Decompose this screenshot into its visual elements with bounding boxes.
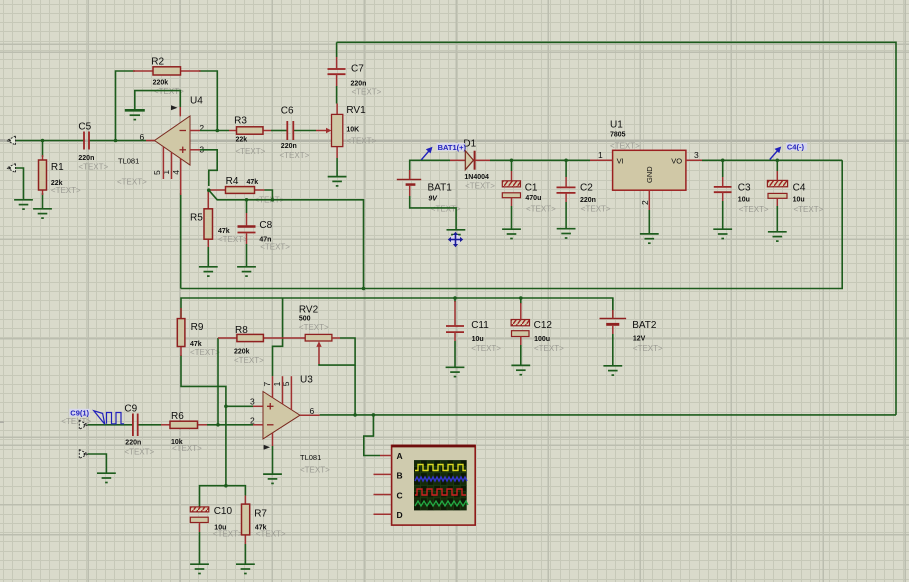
svg-text:<TEXT>: <TEXT> [51,186,81,195]
resistor R9 [177,308,185,356]
ground below terminal T2 [14,200,33,209]
svg-text:BAT1: BAT1 [428,183,453,194]
svg-text:C7: C7 [351,64,364,75]
terminal input T4 [79,450,88,459]
svg-text:R7: R7 [254,509,267,520]
svg-text:220k: 220k [234,349,250,356]
wire U4 pin2 to R3 [200,130,229,132]
resistor R4 [209,187,265,194]
svg-text:220n: 220n [125,440,141,447]
capacitor C7 [328,57,346,86]
svg-text:D: D [397,510,403,520]
oscilloscope [374,445,476,525]
svg-text:C11: C11 [471,320,489,331]
svg-text:TL081: TL081 [300,453,321,462]
wire R3 to C6 [271,130,287,132]
svg-text:<TEXT>: <TEXT> [218,235,248,244]
svg-text:10u: 10u [738,197,750,204]
scope trace C red [415,489,466,495]
svg-text:R3: R3 [234,116,247,127]
wire BAT2 stubs [612,298,614,310]
svg-text:<TEXT>: <TEXT> [299,323,329,332]
origin marker blue [448,232,463,247]
scope trace A yellow [415,465,466,471]
wire U1 pin3 rail [702,159,842,161]
svg-text:<TEXT>: <TEXT> [300,466,330,475]
svg-text:<TEXT>: <TEXT> [526,205,556,214]
terminal input T3 [79,420,88,429]
svg-text:C9: C9 [124,404,137,415]
svg-text:C9(1): C9(1) [70,409,89,418]
svg-text:C2: C2 [580,183,593,194]
battery BAT2 [600,310,627,334]
wire C1 stubs [511,160,513,171]
wire top loop [337,42,896,415]
capacitor C11 [446,301,464,341]
capacitor C10 (polarized) [190,507,209,532]
wire RV2 node to output [354,365,356,415]
svg-text:500: 500 [299,316,311,323]
svg-text:GND: GND [645,166,654,183]
svg-text:R4: R4 [226,176,239,187]
ground below RV1 [328,177,347,186]
svg-text:<TEXT>: <TEXT> [236,147,266,156]
svg-text:<TEXT>: <TEXT> [260,243,290,252]
wire C5 to U4 pin6 [89,140,146,142]
wire U4 pin4 down [180,193,182,289]
wire U1 pin2 to ground [648,210,650,234]
svg-text:<TEXT>: <TEXT> [280,151,310,160]
wire U3 output [320,414,896,416]
svg-text:3: 3 [694,150,699,160]
svg-text:10u: 10u [472,336,484,343]
svg-text:C4(-): C4(-) [787,143,805,152]
resistor R5 [204,190,213,247]
wire terminal4 to ground [88,454,107,473]
wire U4 pin7 to ground [135,91,181,110]
diode D1 1N4004 [450,151,490,170]
svg-text:R2: R2 [151,57,164,68]
wire C2 stubs [565,160,567,177]
svg-text:<TEXT>: <TEXT> [256,530,286,539]
wire R5 to ground [207,247,209,267]
svg-text:470u: 470u [525,195,541,202]
resistor R2 [133,67,201,75]
junction dots bottom [216,287,522,488]
svg-text:220k: 220k [153,80,169,87]
svg-text:10u: 10u [793,197,805,204]
svg-text:47k: 47k [218,228,230,235]
svg-text:<TEXT>: <TEXT> [581,205,611,214]
svg-text:C5: C5 [78,122,91,133]
wire R4 right drop [265,190,273,200]
wire U3 pin3 [226,405,253,407]
wire R1 to ground [42,193,44,209]
svg-text:<TEXT>: <TEXT> [213,530,243,539]
capacitor C9 [133,414,138,437]
svg-text:7: 7 [262,382,272,387]
ground at U4 pin7 [125,110,145,119]
svg-text:C1: C1 [525,183,538,194]
svg-text:<TEXT>: <TEXT> [234,356,264,365]
svg-text:47k: 47k [190,341,202,348]
svg-text:<TEXT>: <TEXT> [465,182,495,191]
wire R2 right leg [199,71,217,130]
scope trace B blue [415,477,467,481]
svg-text:220n: 220n [281,143,297,150]
wire R8 left leg down [217,338,219,425]
svg-text:<TEXT>: <TEXT> [534,344,564,353]
resistor R1 [39,155,47,195]
wire BAT1 riser [410,160,450,179]
svg-text:<TEXT>: <TEXT> [471,344,501,353]
svg-text:C12: C12 [534,320,553,331]
wire U3 pin4 to ground [272,446,274,474]
wire C4 stubs [776,160,778,171]
wire D1 cathode to U1 [490,159,590,161]
svg-text:1: 1 [161,170,171,175]
wire input net to C5 [16,140,85,142]
svg-text:R1: R1 [51,162,64,173]
svg-text:TL081: TL081 [118,157,139,166]
svg-text:<TEXT>: <TEXT> [346,137,376,146]
capacitor C2 [557,177,576,202]
svg-text:C3: C3 [738,183,751,194]
resistor R7 [242,496,250,545]
wire C11 stubs [454,298,456,302]
svg-text:220n: 220n [78,155,94,162]
capacitor C12 (polarized) [511,303,529,345]
wire C7 to RV1 [336,86,338,104]
regulator U1 7805 [590,150,702,210]
voltage probe C4(-) [770,143,807,160]
op-amp U4 (TL081, mirrored) [146,105,200,195]
wire node to y200 rail diagonal [209,190,364,288]
scope trace D green [415,501,468,506]
capacitor C6 [287,121,293,140]
ground below BAT1 [447,230,466,239]
svg-text:4: 4 [171,170,181,175]
svg-text:22k: 22k [236,137,248,144]
wire U4 pin3 jog [200,150,217,186]
wire R6 to U3 pin2 [207,424,253,426]
svg-text:9V: 9V [428,196,438,203]
svg-text:U1: U1 [610,120,623,131]
ground below R1 [33,209,52,218]
wire terminal2 to ground [16,168,24,200]
svg-text:47k: 47k [247,179,259,186]
svg-text:<TEXT>: <TEXT> [190,348,220,357]
svg-text:R5: R5 [190,213,203,224]
svg-text:7805: 7805 [610,132,626,139]
capacitor C4 (polarized) [767,171,787,206]
svg-text:2: 2 [640,200,650,205]
wire C9 to R6 [137,424,161,426]
svg-text:<TEXT>: <TEXT> [610,142,640,151]
wire R9 bottom to U3 pin3 and C10/R7 [181,355,226,486]
wire C3 stubs [722,160,724,177]
svg-text:<TEXT>: <TEXT> [794,205,824,214]
svg-text:<TEXT>: <TEXT> [117,178,147,187]
voltage probe BAT1(+) [421,143,466,160]
svg-text:12V: 12V [633,336,646,343]
wire C10 to ground [199,532,201,564]
svg-text:<TEXT>: <TEXT> [172,444,202,453]
svg-text:220n: 220n [580,197,596,204]
svg-text:U3: U3 [300,375,313,386]
op-amp U3 (TL081) [253,376,320,450]
svg-text:<TEXT>: <TEXT> [633,344,663,353]
resistor R6 [161,421,207,428]
wire rail1 +5V horizontal [181,160,843,288]
svg-text:C8: C8 [259,220,272,231]
svg-text:C: C [397,491,403,501]
svg-text:RV1: RV1 [346,105,366,116]
svg-text:RV2: RV2 [299,305,319,316]
wire C6 to RV1 [294,130,317,132]
wire C7 top stub [336,42,338,57]
svg-text:10K: 10K [346,127,359,134]
wire rail2 +12V horizontal [181,298,613,318]
wire RV1 to ground [336,158,338,176]
svg-text:2: 2 [199,123,204,133]
svg-text:<TEXT>: <TEXT> [78,163,108,172]
resistor R8 [218,334,305,341]
svg-text:<TEXT>: <TEXT> [739,205,769,214]
svg-text:C10: C10 [214,506,233,517]
svg-text:C6: C6 [281,106,294,117]
wire C8 to ground [246,244,248,267]
wire +12V drop to U3 pin7 [273,298,283,376]
wire input to C9 [88,424,133,426]
generator probe C9(1) [69,409,90,417]
svg-text:1: 1 [598,150,603,160]
svg-text:A: A [397,451,403,461]
potentiometer RV1 [316,104,343,159]
svg-text:220n: 220n [351,81,367,88]
wire C8 top [246,200,248,213]
wire BAT1 bottom to ground [410,196,456,230]
terminal input T1 [7,136,16,145]
svg-text:<TEXT>: <TEXT> [124,448,154,457]
svg-text:R9: R9 [191,322,204,333]
capacitor C5 [84,132,89,150]
svg-text:3: 3 [250,397,255,407]
wire RV2 right loop [319,338,355,365]
svg-text:U4: U4 [190,96,203,107]
wire R1 branch [42,141,44,158]
capacitor C8 [238,213,256,244]
svg-text:B: B [397,471,403,481]
terminal input T2 [7,164,16,173]
svg-text:BAT1(+): BAT1(+) [438,143,467,152]
wire R7 to ground [244,544,246,564]
svg-text:VO: VO [671,157,682,166]
svg-text:VI: VI [617,157,624,166]
svg-text:1N4004: 1N4004 [464,174,489,181]
potentiometer RV2 [305,334,340,364]
svg-text:R6: R6 [171,411,184,422]
wire R2 left leg [116,71,136,141]
capacitor C3 [714,177,732,201]
capacitor C1 (polarized) [502,171,520,206]
svg-text:100u: 100u [534,336,550,343]
wire C12 stubs [520,298,522,304]
svg-text:BAT2: BAT2 [632,320,657,331]
svg-text:<TEXT>: <TEXT> [352,88,382,97]
wire scope A branch [364,415,380,456]
resistor R3 [229,127,271,134]
junction dots top [41,129,779,202]
battery BAT1 [397,170,421,196]
svg-text:C4: C4 [793,183,806,194]
